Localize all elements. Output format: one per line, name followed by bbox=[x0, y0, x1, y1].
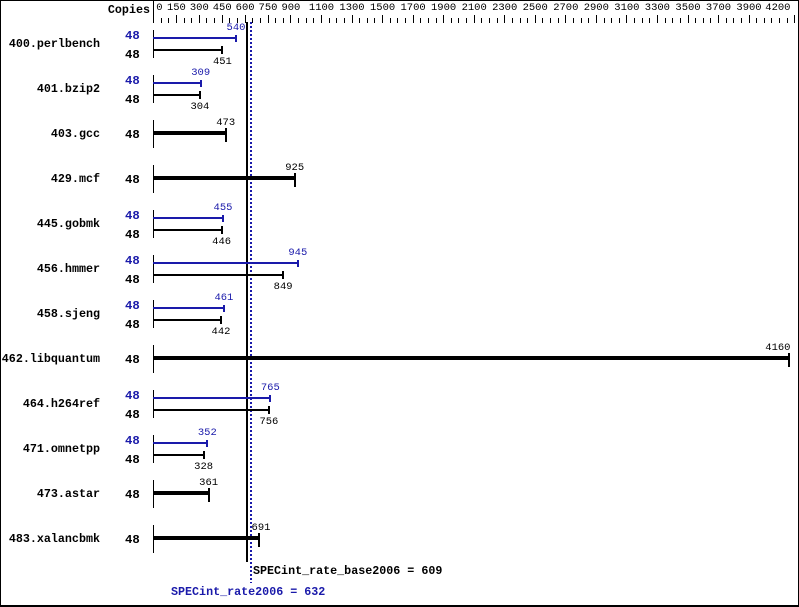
value label 473 bbox=[196, 118, 256, 128]
base bar end cap bbox=[221, 226, 223, 234]
left cap line for 471.omnetpp bbox=[153, 435, 154, 463]
axis label 2300 bbox=[475, 3, 535, 13]
axis label 3100 bbox=[597, 3, 657, 13]
label 456.hmmer bbox=[0, 263, 100, 275]
copies label 48 bbox=[125, 355, 140, 366]
base bar 458.sjeng = 442 bbox=[153, 319, 221, 321]
axis label 3300 bbox=[627, 3, 687, 13]
copies label 48 (base row) bbox=[125, 410, 140, 421]
bar 462.libquantum = 4160 (base and peak equal) bbox=[153, 356, 789, 360]
label 483.xalancbmk bbox=[0, 533, 100, 545]
axis label 1700 bbox=[383, 3, 443, 13]
axis label 0 bbox=[156, 3, 162, 13]
base bar end cap bbox=[268, 406, 270, 414]
axis label 1300 bbox=[322, 3, 382, 13]
left cap line for 473.astar bbox=[153, 480, 154, 508]
peak bar 471.omnetpp = 352 bbox=[153, 442, 207, 444]
axis label 2500 bbox=[505, 3, 565, 13]
left cap line for 462.libquantum bbox=[153, 345, 154, 373]
copies label 48 (peak row) bbox=[125, 31, 140, 42]
peak bar end cap bbox=[206, 440, 208, 447]
peak value label 765 bbox=[240, 383, 300, 393]
base value label 304 bbox=[170, 102, 230, 112]
axis label 1900 bbox=[414, 3, 474, 13]
left cap line for 403.gcc bbox=[153, 120, 154, 148]
label 401.bzip2 bbox=[0, 83, 100, 95]
peak value label 455 bbox=[193, 203, 253, 213]
axis label 300 bbox=[169, 3, 229, 13]
value label 361 bbox=[179, 478, 239, 488]
label 462.libquantum bbox=[0, 353, 100, 365]
copies label 48 (base row) bbox=[125, 275, 140, 286]
base value label 451 bbox=[192, 57, 252, 67]
base value label 328 bbox=[174, 462, 234, 472]
copies label 48 (peak row) bbox=[125, 211, 140, 222]
left cap line for 483.xalancbmk bbox=[153, 525, 154, 553]
peak bar end cap bbox=[222, 215, 224, 222]
base bar end cap bbox=[221, 46, 223, 54]
left cap line for 456.hmmer bbox=[153, 255, 154, 283]
bar 403.gcc = 473 (base and peak equal) bbox=[153, 131, 226, 135]
base bar end cap bbox=[199, 91, 201, 99]
axis label 150 bbox=[146, 3, 206, 13]
peak bar end cap bbox=[223, 305, 225, 312]
bar end cap bbox=[294, 173, 296, 187]
base bar 464.h264ref = 756 bbox=[153, 409, 269, 411]
left cap line for 400.perlbench bbox=[153, 30, 154, 58]
base bar 445.gobmk = 446 bbox=[153, 229, 222, 231]
peak value label 945 bbox=[268, 248, 328, 258]
copies label 48 bbox=[125, 130, 140, 141]
peak bar 401.bzip2 = 309 bbox=[153, 82, 201, 84]
copies label 48 (base row) bbox=[125, 320, 140, 331]
axis label 2900 bbox=[566, 3, 626, 13]
base value label 756 bbox=[239, 417, 299, 427]
left cap line for 445.gobmk bbox=[153, 210, 154, 238]
copies label 48 bbox=[125, 535, 140, 546]
peak bar 464.h264ref = 765 bbox=[153, 397, 270, 399]
axis label 3700 bbox=[689, 3, 749, 13]
left cap line for 464.h264ref bbox=[153, 390, 154, 418]
base value label 849 bbox=[253, 282, 313, 292]
copies label 48 (peak row) bbox=[125, 436, 140, 447]
peak bar 400.perlbench = 540 bbox=[153, 37, 236, 39]
value label 925 bbox=[265, 163, 325, 173]
annotation SPECint_rate_base2006 = 609 bbox=[253, 565, 442, 577]
axis label 600 bbox=[215, 3, 275, 13]
peak bar end cap bbox=[235, 35, 237, 42]
axis label 3900 bbox=[719, 3, 779, 13]
value label 4160 bbox=[731, 343, 791, 353]
annotation SPECint_rate2006 = 632 bbox=[171, 586, 325, 598]
axis label 1100 bbox=[292, 3, 352, 13]
peak value label 352 bbox=[177, 428, 237, 438]
Copies column header bbox=[64, 4, 150, 16]
base bar end cap bbox=[203, 451, 205, 459]
bar end cap bbox=[225, 128, 227, 142]
left cap line for 401.bzip2 bbox=[153, 75, 154, 103]
axis label 2100 bbox=[444, 3, 504, 13]
label 429.mcf bbox=[0, 173, 100, 185]
peak bar 445.gobmk = 455 bbox=[153, 217, 223, 219]
SPECint_rate_base2006 reference line (609) bbox=[246, 22, 248, 562]
label 471.omnetpp bbox=[0, 443, 100, 455]
peak bar end cap bbox=[297, 260, 299, 267]
base value label 446 bbox=[192, 237, 252, 247]
copies label 48 bbox=[125, 175, 140, 186]
label 458.sjeng bbox=[0, 308, 100, 320]
value label 691 bbox=[231, 523, 291, 533]
copies label 48 (peak row) bbox=[125, 301, 140, 312]
axis label 450 bbox=[192, 3, 252, 13]
axis label 2700 bbox=[536, 3, 596, 13]
axis label 4200 bbox=[751, 3, 791, 13]
peak bar 458.sjeng = 461 bbox=[153, 307, 224, 309]
label 400.perlbench bbox=[0, 38, 100, 50]
copies label 48 (base row) bbox=[125, 455, 140, 466]
left cap line for 458.sjeng bbox=[153, 300, 154, 328]
base bar 400.perlbench = 451 bbox=[153, 49, 222, 51]
base bar end cap bbox=[220, 316, 222, 324]
copies label 48 (base row) bbox=[125, 50, 140, 61]
peak value label 461 bbox=[194, 293, 254, 303]
axis vertical line at x=153 bbox=[153, 1, 154, 23]
axis label 900 bbox=[261, 3, 321, 13]
bar 483.xalancbmk = 691 (base and peak equal) bbox=[153, 536, 259, 540]
left cap line for 429.mcf bbox=[153, 165, 154, 193]
base bar 471.omnetpp = 328 bbox=[153, 454, 204, 456]
peak bar 456.hmmer = 945 bbox=[153, 262, 298, 264]
bar end cap bbox=[208, 488, 210, 502]
bar end cap bbox=[788, 353, 790, 367]
label 464.h264ref bbox=[0, 398, 100, 410]
base bar 456.hmmer = 849 bbox=[153, 274, 283, 276]
base bar 401.bzip2 = 304 bbox=[153, 94, 200, 96]
peak value label 540 bbox=[206, 23, 266, 33]
copies label 48 bbox=[125, 490, 140, 501]
SPECint_rate2006 reference line (632, blue dotted) bbox=[250, 22, 252, 583]
axis tick marks (minor every 50, long at labeled values) bbox=[0, 0, 1, 1]
copies label 48 (peak row) bbox=[125, 391, 140, 402]
peak value label 309 bbox=[171, 68, 231, 78]
copies label 48 (peak row) bbox=[125, 76, 140, 87]
peak bar end cap bbox=[269, 395, 271, 402]
axis label 1500 bbox=[353, 3, 413, 13]
label 445.gobmk bbox=[0, 218, 100, 230]
base value label 442 bbox=[191, 327, 251, 337]
copies label 48 (base row) bbox=[125, 230, 140, 241]
bar end cap bbox=[258, 533, 260, 547]
axis label 750 bbox=[238, 3, 298, 13]
label 473.astar bbox=[0, 488, 100, 500]
copies label 48 (base row) bbox=[125, 95, 140, 106]
label 403.gcc bbox=[0, 128, 100, 140]
base bar end cap bbox=[282, 271, 284, 279]
bar 473.astar = 361 (base and peak equal) bbox=[153, 491, 209, 495]
axis label 3500 bbox=[658, 3, 718, 13]
copies label 48 (peak row) bbox=[125, 256, 140, 267]
bar 429.mcf = 925 (base and peak equal) bbox=[153, 176, 295, 180]
peak bar end cap bbox=[200, 80, 202, 87]
